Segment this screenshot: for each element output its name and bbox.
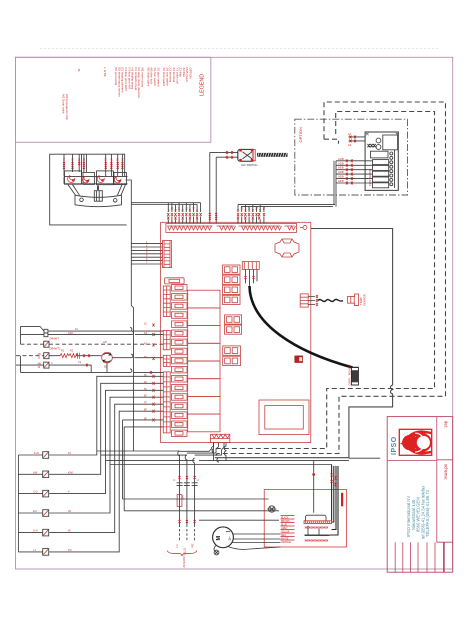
- row D resistor network: [60, 354, 78, 358]
- PCB outline: [161, 222, 311, 442]
- wire row A: [21, 326, 164, 331]
- temp sensor plug: [348, 294, 359, 306]
- gray cable route: [219, 229, 393, 458]
- left wires bottom: [18, 323, 163, 556]
- IPSO emblem hole: [417, 436, 430, 449]
- contactor coil circles: [376, 138, 381, 143]
- svg-text:M: M: [216, 536, 222, 541]
- option box and contactor: [295, 119, 408, 206]
- lock crescent dots: [72, 179, 120, 182]
- module label column: [281, 517, 291, 545]
- wire door lock to bus: [131, 207, 133, 451]
- door lock pin group A labels: [63, 157, 124, 161]
- svg-text:ALF SWITCH: ALF SWITCH: [241, 163, 257, 167]
- svg-text:DRAWT2: DRAWT2: [50, 347, 61, 351]
- bottom connector J9: [210, 434, 229, 442]
- connector J2 left comb: [163, 241, 172, 268]
- right group labels: [237, 206, 266, 212]
- left group drop wires: [168, 203, 200, 212]
- logo cell divider: [387, 460, 437, 462]
- horizontal feeder row2: [97, 451, 187, 455]
- wire pin crosses: [226, 151, 233, 159]
- svg-text:DRAWT: DRAWT: [50, 337, 60, 341]
- horizontal feeder row4: [110, 462, 332, 465]
- switch S4: [44, 353, 49, 359]
- ALF red bar: [253, 150, 255, 161]
- right group drop wires: [238, 205, 264, 212]
- left bus lower: [17, 455, 19, 552]
- cable header J5: [242, 262, 259, 270]
- ALF switch: [210, 149, 288, 167]
- outer dashed left jog: [324, 139, 339, 144]
- rotary drop: [106, 363, 108, 373]
- drop verticals: [180, 460, 195, 527]
- svg-text:OPTION: OPTION: [189, 68, 193, 79]
- svg-text:AV: AV: [68, 509, 72, 513]
- bottom row 5: [18, 466, 114, 533]
- DIP module cluster 2: [225, 315, 242, 334]
- left group pin crosses: [167, 213, 201, 220]
- svg-text:AC220V: AC220V: [182, 556, 186, 567]
- svg-text:IPSO: IPSO: [391, 436, 398, 455]
- latch tick: [97, 186, 99, 191]
- svg-text:xxxxxxxxxxxxxxxxx: xxxxxxxxxxxxxxxxx: [305, 539, 329, 543]
- wire from long bus down: [313, 461, 315, 513]
- motor: [213, 527, 234, 548]
- bracket screws: [80, 198, 84, 202]
- DIP module cluster 3: [223, 346, 241, 366]
- svg-text:A2/B: A2/B: [338, 161, 344, 165]
- wire row F: [21, 369, 164, 373]
- top pins and wires: [131, 152, 335, 223]
- module connector 1: [304, 521, 331, 524]
- door lock enclosure: [50, 154, 163, 451]
- rotary switch symbol: [102, 352, 113, 363]
- right group bus from contactor: [238, 205, 335, 207]
- contactor coil rect: [371, 151, 389, 158]
- fan wires doorlock to PCB connector J2: [131, 244, 163, 264]
- bundle pins: [331, 474, 337, 487]
- coil feed pins: [350, 135, 357, 142]
- left bus upper: [20, 326, 22, 344]
- relay body column: [188, 290, 220, 432]
- DIP module cluster 1: [223, 265, 241, 305]
- PCB entry labels: [144, 323, 148, 421]
- svg-text:A4/B: A4/B: [338, 170, 344, 174]
- bottom row 1: [18, 451, 96, 455]
- motor wires: [228, 534, 281, 549]
- svg-text:det:: det:: [444, 421, 449, 428]
- svg-text:A5/B: A5/B: [338, 175, 344, 179]
- bundle risers to PCB connectors: [97, 376, 164, 469]
- red tick in module: [341, 493, 343, 507]
- top terminal strip: [166, 223, 297, 232]
- extra bundle risers: [123, 420, 164, 511]
- IPSO emblem white separator: [415, 433, 424, 452]
- lock solenoid blocks: [65, 171, 127, 185]
- contactor top right box: [383, 135, 398, 150]
- svg-text:ORANGE: ORANGE: [281, 541, 291, 544]
- fan wire labels: [146, 240, 148, 264]
- horizontal feeder row1: [134, 450, 180, 452]
- bottom center: [97, 443, 349, 568]
- svg-text:OPTION: OPTION: [298, 127, 303, 142]
- drop vertical dashed tails: [180, 529, 195, 542]
- wire into module low: [199, 519, 279, 521]
- row E pin: [86, 364, 88, 367]
- schema cell divider: [437, 541, 453, 543]
- left wires middle: [16, 326, 163, 374]
- svg-text:L1: L1: [175, 544, 179, 548]
- bottom strip cells: [395, 542, 435, 572]
- switch S1a: [44, 329, 48, 333]
- bracket center latch: [94, 191, 102, 202]
- header pin marks: [245, 276, 255, 279]
- PCB board: [161, 222, 367, 442]
- horizontal feeder row3: [106, 459, 349, 461]
- wires into module: [119, 499, 279, 520]
- contactor body: [365, 132, 398, 190]
- ribbon cable curve: [250, 286, 353, 368]
- svg-text:A1/B: A1/B: [338, 157, 344, 161]
- door lock wires from top edge: [64, 154, 122, 176]
- lock body solenoid crescents: [68, 176, 121, 183]
- display window: [259, 400, 309, 435]
- svg-text:A2: A2: [348, 143, 352, 147]
- long bottom wire: [349, 457, 380, 459]
- temp sensor wire: [318, 299, 343, 301]
- svg-text:A/F: A/F: [103, 340, 107, 344]
- fuse F1: [165, 278, 185, 284]
- lock bracket wings: [68, 185, 126, 196]
- IPSO emblem outer ring: [413, 433, 431, 451]
- faint page top edge: [40, 48, 440, 50]
- svg-text:M2 Emergency stop: M2 Emergency stop: [65, 94, 69, 120]
- module label ticks: [281, 516, 295, 541]
- disconnect bars: [177, 483, 198, 486]
- switch S1b: [44, 333, 48, 337]
- ALF body red corners: [239, 149, 253, 162]
- module connector 2: [305, 535, 330, 537]
- wire row C dashed: [21, 343, 164, 345]
- wire row D dashed with chain: [16, 355, 44, 357]
- black wire bundle into module: [330, 465, 338, 536]
- ALF switch body: [238, 149, 253, 161]
- supply brace: [167, 551, 197, 557]
- legend text columns: [62, 68, 193, 121]
- bottom strip thick divider: [443, 542, 445, 572]
- svg-text:A-B: A-B: [33, 471, 38, 474]
- wire pins bottom: [179, 476, 196, 479]
- dashed routes: [212, 102, 445, 462]
- header pins down: [246, 269, 258, 286]
- wires PCB bottom connector down: [180, 443, 225, 456]
- svg-text:F+N: F+N: [34, 452, 39, 455]
- input wire pins: [346, 159, 353, 184]
- contactor right inner edge: [394, 150, 396, 188]
- IPSO emblem box: [399, 429, 431, 455]
- svg-text:E-F: E-F: [33, 510, 38, 513]
- connector extra drops: [214, 443, 227, 461]
- door lock pin crosses: [63, 162, 123, 169]
- module connector 1 cover: [306, 515, 327, 521]
- fuse on L1: [177, 495, 182, 507]
- inner dashed route: [212, 112, 434, 454]
- input wire labels: [338, 157, 344, 183]
- IPSO emblem spike: [400, 440, 409, 446]
- switch S5: [44, 362, 49, 368]
- gray route jog at dash cross: [215, 458, 219, 462]
- left comb connectors: [163, 286, 170, 317]
- title block frame: [387, 417, 453, 573]
- bottom module box: [264, 490, 346, 548]
- motor ground: [214, 546, 216, 552]
- svg-text:A1: A1: [348, 132, 352, 136]
- title block: [387, 417, 453, 573]
- lock bracket plate: [75, 195, 122, 206]
- OPTION dash-dot box: [295, 119, 408, 195]
- contactor contact rows: [373, 160, 389, 188]
- right group pin crosses: [237, 213, 265, 220]
- svg-text:A6/B: A6/B: [338, 179, 344, 183]
- lock body bar: [64, 177, 128, 184]
- left group pin stems: [168, 217, 200, 224]
- svg-text:A3/B: A3/B: [338, 166, 344, 170]
- wires to ALF: [210, 152, 239, 157]
- IPSO emblem disc: [402, 435, 417, 450]
- ALF drop wires: [210, 152, 216, 223]
- bus doorlock to strip left group: [131, 203, 200, 205]
- IPSO emblem bottom neck: [407, 446, 432, 455]
- svg-text:LEGEND: LEGEND: [200, 74, 206, 96]
- relay small contact column: [172, 285, 188, 437]
- title inner divider vertical: [436, 417, 438, 543]
- legend box: [16, 57, 211, 142]
- contactor XXX marks: [368, 144, 376, 147]
- contactor screws: [366, 133, 398, 136]
- svg-text:S2 door switch: S2 door switch: [156, 68, 160, 87]
- door coil cylinder: [351, 367, 358, 385]
- PCB mount hole top right: [300, 227, 303, 229]
- outer dashed route: [216, 102, 445, 458]
- bottom row 2: [18, 455, 100, 474]
- svg-text:C-D: C-D: [33, 491, 38, 494]
- page border frame: [16, 57, 453, 569]
- bottom row 4: [18, 462, 110, 513]
- svg-text:K/M: K/M: [68, 470, 73, 474]
- contactor bundle vertical: [334, 161, 336, 207]
- svg-text:K2 relay motor direction: K2 relay motor direction: [137, 68, 141, 99]
- svg-text:schema:: schema:: [444, 464, 449, 480]
- svg-text:K/M: K/M: [68, 331, 73, 335]
- left group labels: [167, 206, 199, 212]
- det cell divider: [437, 459, 453, 461]
- contactor input wires: [336, 161, 373, 183]
- drop wire jogs: [178, 451, 195, 466]
- ALF drop pin crosses: [209, 213, 217, 220]
- address text: [406, 485, 430, 539]
- PCB entry pins: [153, 324, 155, 422]
- svg-text:PE: PE: [191, 543, 195, 547]
- wire row E: [16, 365, 91, 372]
- enclosure outline: [50, 154, 127, 225]
- earth circle: [269, 506, 275, 512]
- bottom row 3: [18, 459, 105, 494]
- ALF threaded rod: [257, 153, 288, 157]
- bottom row 6: [18, 469, 119, 552]
- jumper block: [295, 356, 303, 363]
- svg-text:SENSOR: SENSOR: [363, 294, 367, 306]
- temp header right edge: [300, 294, 308, 307]
- switch S3: [44, 341, 49, 347]
- left bus lower2: [20, 356, 22, 373]
- temp header pins: [308, 297, 315, 305]
- svg-text:L N PE: L N PE: [103, 68, 107, 77]
- IPSO emblem top neck: [406, 430, 431, 439]
- contactor terminal circles: [390, 152, 393, 186]
- PCB octagon cutout: [275, 239, 299, 257]
- svg-text:G-H: G-H: [33, 530, 38, 533]
- svg-text:PU: PU: [68, 548, 72, 552]
- wire row B: [21, 331, 164, 335]
- svg-text:3~: 3~: [227, 535, 232, 540]
- right group pin stems: [238, 217, 264, 224]
- svg-text:TELEFAX:(056)-41.86.74: TELEFAX:(056)-41.86.74: [425, 489, 430, 537]
- svg-text:DISPL. BOARD: DISPL. BOARD: [348, 364, 352, 386]
- contactor coil feed wires: [349, 137, 366, 141]
- svg-text:M1 motor drum: M1 motor drum: [141, 68, 145, 88]
